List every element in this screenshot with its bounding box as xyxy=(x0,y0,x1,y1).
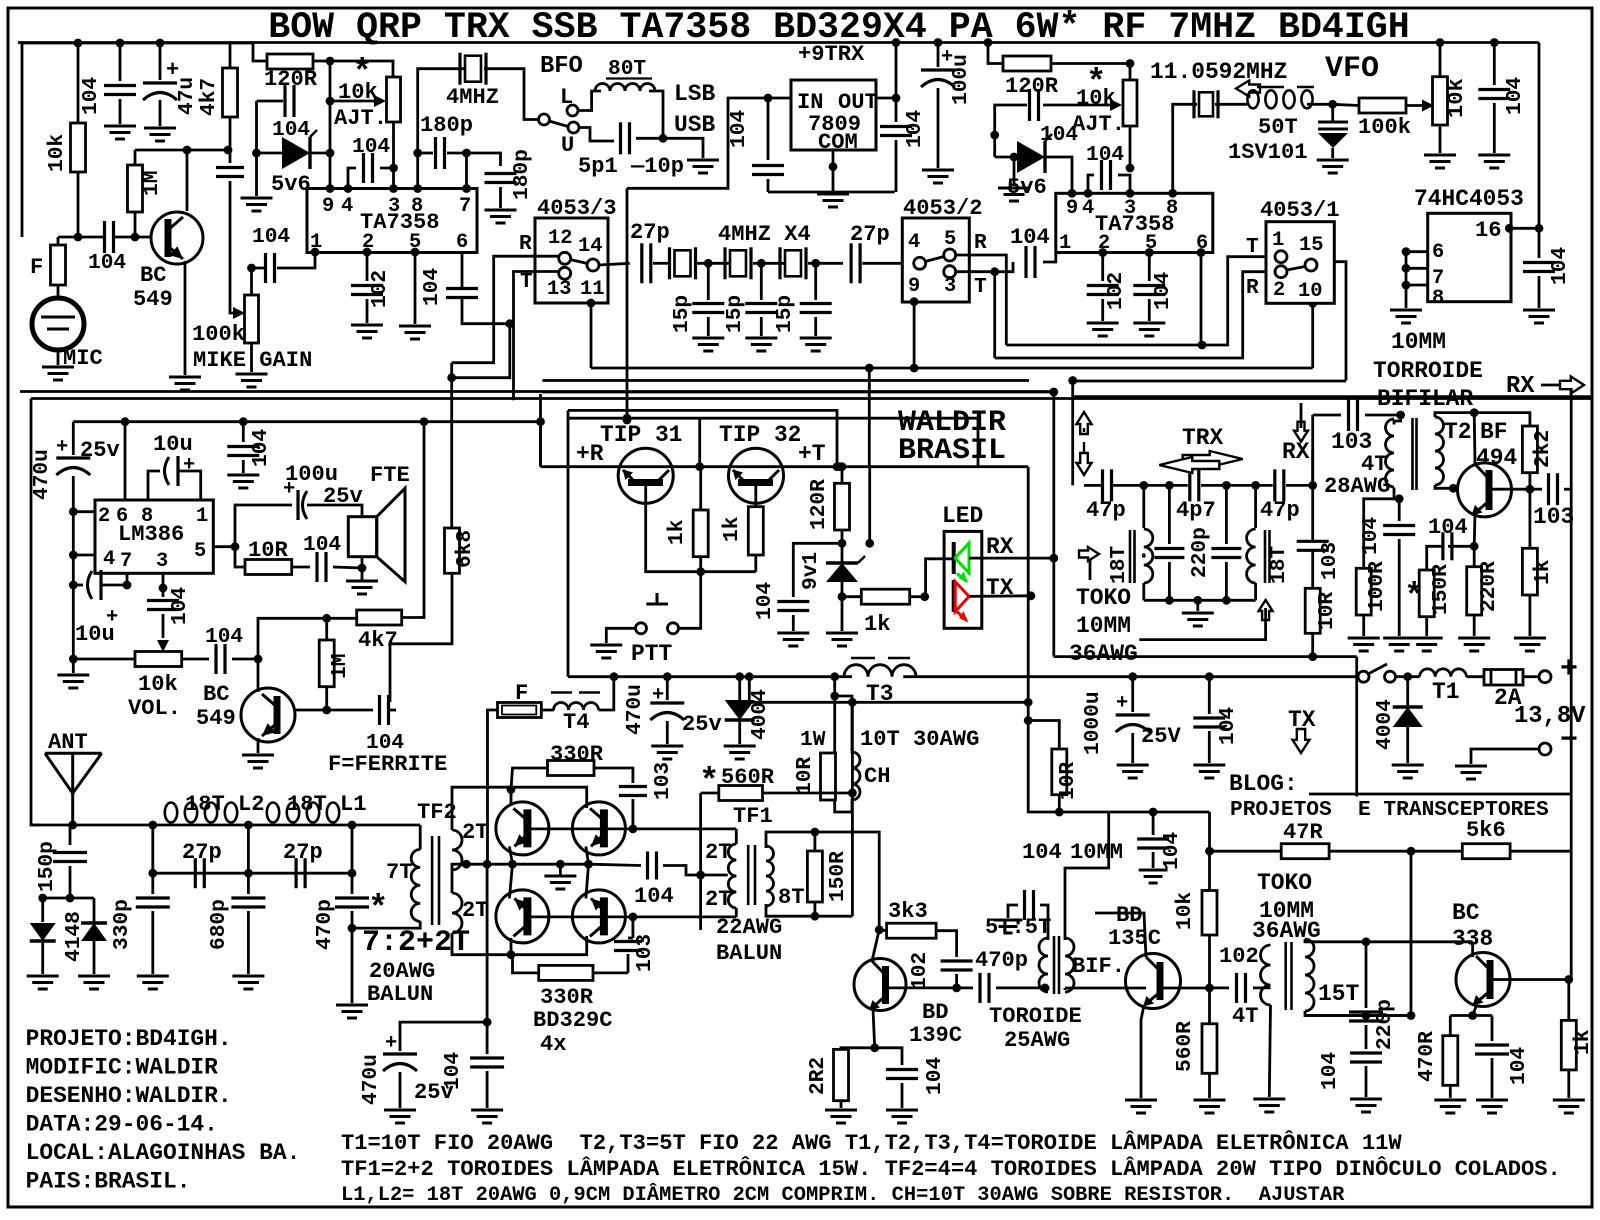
wire line B xyxy=(749,677,1028,703)
node base2 xyxy=(322,706,331,715)
annotation arrow RX down xyxy=(1294,422,1308,442)
ground 104 tank xyxy=(1350,1098,1382,1101)
zener 5v6 second xyxy=(1017,141,1045,173)
capacitor 104 bif xyxy=(1023,890,1026,920)
ground 180p2 xyxy=(485,209,517,212)
wire 220p b xyxy=(1225,485,1228,544)
svg-text:TF1: TF1 xyxy=(733,804,773,829)
wire node down xyxy=(329,61,332,188)
blade 4053/3 xyxy=(570,260,588,264)
wire zobel gnd xyxy=(333,567,362,581)
node +T lineB xyxy=(1024,698,1033,707)
ground 220R xyxy=(1458,637,1490,640)
wire q1 emit xyxy=(509,846,512,864)
node 1k1 bot xyxy=(696,567,705,576)
wire 10u to pin1 xyxy=(178,471,201,500)
wire tap decouple xyxy=(486,864,489,1022)
ground 15p3 xyxy=(800,337,832,340)
svg-text:TIP 32: TIP 32 xyxy=(719,422,801,448)
wire spk gnd lead xyxy=(361,557,364,568)
wire bc2 coll up xyxy=(257,659,260,692)
annotation arrow toko xyxy=(1259,600,1273,620)
node rail 120R2 xyxy=(984,38,993,47)
svg-text:9: 9 xyxy=(322,195,334,218)
svg-text:3k3: 3k3 xyxy=(888,899,928,924)
svg-text:6: 6 xyxy=(456,231,468,254)
wire tip32 base xyxy=(754,485,757,507)
wire 2k2 bot xyxy=(1529,473,1532,490)
svg-text:TOKO: TOKO xyxy=(1257,870,1312,896)
svg-text:100k: 100k xyxy=(192,322,245,347)
wire rx ann stub xyxy=(1300,403,1303,428)
capacitor 220p a xyxy=(1154,547,1184,550)
bus R cross xyxy=(1006,257,1274,345)
ferrite bead inner xyxy=(502,706,536,715)
wire up to 618 xyxy=(258,618,327,659)
wire 15p-2 gnd xyxy=(760,317,763,336)
svg-text:104: 104 xyxy=(79,77,103,115)
wire 10R branch xyxy=(235,547,245,567)
svg-text:LOCAL:ALAGOINHAS BA.: LOCAL:ALAGOINHAS BA. xyxy=(26,1140,301,1166)
ground 47u xyxy=(144,127,176,130)
svg-text:4053/3: 4053/3 xyxy=(537,196,617,221)
wire 2R2 tie xyxy=(841,1048,875,1050)
wire 330p lead xyxy=(151,873,154,894)
svg-text:13: 13 xyxy=(547,278,571,301)
ground d1 xyxy=(27,975,59,978)
PTT contact b xyxy=(668,623,679,634)
wire 150p bot xyxy=(69,866,72,898)
svg-text:2T: 2T xyxy=(462,898,489,923)
node p16 rail xyxy=(1535,224,1544,233)
wire 2R2 gnd xyxy=(840,1101,843,1108)
wire 10u2 right xyxy=(101,584,127,587)
node rail j3 xyxy=(156,39,165,48)
svg-text:10R: 10R xyxy=(793,757,817,795)
wire cap2 left xyxy=(995,105,1027,157)
inductor 5T:5T secondary xyxy=(1065,938,1074,992)
node 104m j xyxy=(1205,672,1214,681)
wire pin7 stub xyxy=(1406,267,1428,270)
T3 core dashes xyxy=(851,657,875,660)
node tf2 ret xyxy=(348,924,357,933)
wire 14 out xyxy=(599,263,630,265)
wire 104m gnd xyxy=(1208,731,1211,763)
wire ch bot xyxy=(835,799,852,812)
wire 120R2 feed xyxy=(988,43,1003,64)
svg-text:104: 104 xyxy=(1022,840,1062,865)
svg-text:8T: 8T xyxy=(778,885,805,910)
svg-text:47u: 47u xyxy=(175,77,199,115)
ground 4004 xyxy=(724,745,756,748)
inductor T1 xyxy=(1420,669,1467,677)
svg-text:104: 104 xyxy=(420,268,444,306)
wire emitter down xyxy=(184,261,187,375)
wire rx ctl up / bpf box left edge xyxy=(1052,392,1055,657)
wire chain row xyxy=(1097,484,1101,487)
wire pin1 down xyxy=(277,252,315,268)
wire +T ctl down xyxy=(1028,467,1033,812)
contact 5 xyxy=(944,249,956,261)
node e2 xyxy=(584,860,593,869)
wire 470R tie xyxy=(1449,1016,1452,1036)
wire 15p-1 gnd xyxy=(707,317,710,336)
capacitor 104 mike-gain series xyxy=(216,166,244,169)
resistor 3k3 xyxy=(887,923,937,938)
wire collector row xyxy=(135,149,228,152)
wire p2 down xyxy=(1101,253,1104,282)
wire base row 2 xyxy=(296,709,373,712)
svg-text:3: 3 xyxy=(1124,197,1136,220)
capacitor 330p xyxy=(136,896,170,899)
node T2 pri top xyxy=(1396,411,1405,420)
wire 1M bottom xyxy=(134,212,137,237)
svg-text:LED: LED xyxy=(942,503,983,529)
wire bpf up lead xyxy=(1311,450,1314,485)
ground 4T xyxy=(1253,1098,1285,1101)
svg-text:220R: 220R xyxy=(1477,561,1501,612)
node t1b xyxy=(1165,481,1174,490)
wire top collectors xyxy=(510,787,587,808)
wire 10k bottom xyxy=(77,172,80,237)
wire 104em to 150R xyxy=(1427,546,1443,570)
svg-text:*: * xyxy=(1404,579,1424,617)
terminal 13.8V + xyxy=(1539,671,1551,683)
wire 330R1 left xyxy=(511,768,548,790)
wire lpf v2 xyxy=(247,825,250,873)
wire 104hc gnd xyxy=(1538,276,1541,308)
wire 4T top xyxy=(1394,415,1401,425)
node bf base node xyxy=(1526,485,1535,494)
svg-text:104: 104 xyxy=(903,110,927,148)
node tb1 xyxy=(1165,596,1174,605)
inductor TF2 secondary a xyxy=(452,830,462,870)
svg-text:560R: 560R xyxy=(1173,1021,1197,1072)
wire egnd stub xyxy=(559,864,562,876)
inductor TF1 primary 8T xyxy=(766,846,774,906)
wire 560r2 gnd xyxy=(1208,1073,1211,1098)
svg-text:25v: 25v xyxy=(80,438,120,463)
node usb join xyxy=(659,134,668,143)
node rail j2 xyxy=(116,39,125,48)
wire 15p-1 xyxy=(707,263,710,300)
node pin3 lm xyxy=(159,584,168,593)
svg-text:AJT.: AJT. xyxy=(1072,112,1125,137)
wire 4T bot drv xyxy=(1269,1005,1270,1097)
wire p2 gnd xyxy=(1101,299,1104,321)
inductor TF1 secondary a xyxy=(728,844,736,876)
wire 103 bot fb xyxy=(632,917,635,938)
ground 104 bypass xyxy=(104,125,136,128)
capacitor 104 74hc xyxy=(1523,261,1555,264)
node led in xyxy=(920,592,929,601)
wire 4k7 to node xyxy=(229,117,232,150)
wire bpf box right edge xyxy=(1355,657,1358,797)
resistor 120R xyxy=(267,54,313,69)
annotation arrow TRX left xyxy=(1159,457,1219,473)
wire wiper xyxy=(330,100,374,103)
wire 102 down xyxy=(955,974,958,988)
potentiometer 10k VFO xyxy=(1433,77,1448,125)
node coll node xyxy=(1470,408,1479,417)
wire 9v1 to 1k xyxy=(842,595,861,598)
wire coil to node xyxy=(1307,103,1333,106)
node lineB start xyxy=(745,672,754,681)
svg-text:1: 1 xyxy=(1272,229,1284,252)
annotation arrow bpf down xyxy=(1077,453,1092,475)
wire bd135 base left xyxy=(1065,987,1146,990)
wire +R drop xyxy=(539,394,542,467)
node 3k3 tie xyxy=(875,925,884,934)
bus T cross xyxy=(995,272,1275,358)
resistor 120R third xyxy=(835,483,850,530)
wire lpf row2 xyxy=(153,872,352,875)
svg-text:1W: 1W xyxy=(800,728,826,752)
node zener anode xyxy=(252,149,261,158)
resistor 4k7 second xyxy=(357,610,402,625)
wire chain 4 xyxy=(1286,484,1313,487)
svg-text:10k: 10k xyxy=(45,134,69,172)
svg-text:18T: 18T xyxy=(1107,546,1131,584)
capacitor 104 emitter xyxy=(1441,532,1444,560)
node 1k1 top xyxy=(695,462,704,471)
svg-text:VOL.: VOL. xyxy=(128,696,181,721)
wire cap to join xyxy=(636,137,663,140)
resistor 1k 338 xyxy=(1561,1020,1576,1070)
wire fuse to term xyxy=(1523,675,1539,678)
wire pin2 stub xyxy=(73,510,95,513)
wire cap to 6k8 xyxy=(390,709,396,712)
switch power b xyxy=(1385,671,1396,682)
wire TR frame xyxy=(698,418,701,467)
node decouple xyxy=(483,1018,492,1027)
svg-text:25v: 25v xyxy=(682,712,722,737)
node rail j1 xyxy=(74,39,83,48)
wire 103c to T2 xyxy=(1365,414,1401,417)
svg-text:100k: 100k xyxy=(1358,115,1411,140)
node p4 2 xyxy=(1084,189,1093,198)
node d1 xyxy=(38,894,47,903)
wire drv supply xyxy=(1033,811,1210,814)
svg-text:−: − xyxy=(1560,724,1578,758)
svg-text:TIP 31: TIP 31 xyxy=(600,422,682,448)
svg-text:2R2: 2R2 xyxy=(806,1057,830,1095)
svg-text:4T: 4T xyxy=(1232,1004,1259,1029)
svg-text:104: 104 xyxy=(352,135,390,159)
svg-text:50T: 50T xyxy=(1258,115,1298,140)
svg-text:1k: 1k xyxy=(1571,1029,1595,1055)
svg-text:T2: T2 xyxy=(1444,419,1471,445)
wire bif cap gnd xyxy=(1008,905,1018,918)
wire 10R to lineC xyxy=(1311,633,1314,656)
svg-text:4053/1: 4053/1 xyxy=(1260,198,1340,223)
inductor T3 xyxy=(844,665,916,677)
wire 120R to pot xyxy=(313,61,393,77)
svg-text:8: 8 xyxy=(1166,197,1178,220)
ground 4004b xyxy=(1392,764,1424,767)
svg-text:BLOG:: BLOG: xyxy=(1229,771,1298,797)
wire 3k3 left xyxy=(879,928,886,932)
wire q2 emit xyxy=(586,846,589,864)
wire audio 6k8 feed xyxy=(450,363,453,528)
wire cap104 gnd lead xyxy=(119,99,122,124)
wire bf base xyxy=(1489,488,1530,491)
IC 7809 regulator xyxy=(791,80,876,150)
svg-text:104: 104 xyxy=(441,1052,465,1090)
wire tx feed down xyxy=(851,702,854,916)
node hc7 xyxy=(1402,264,1411,273)
node hc8 xyxy=(1402,281,1411,290)
svg-text:LSB: LSB xyxy=(674,81,715,107)
wire 104m lead xyxy=(1208,677,1211,714)
wire cap to pin3 xyxy=(380,168,394,189)
wire cap 104 series xyxy=(229,150,232,163)
svg-text:18T L2: 18T L2 xyxy=(185,792,265,817)
wire p8-2 up xyxy=(1173,104,1197,193)
ground vfo pot xyxy=(1424,154,1456,157)
potentiometer 10k VOL xyxy=(135,652,182,667)
node pin9 xyxy=(326,184,335,193)
svg-text:PROJETO:BD4IGH.: PROJETO:BD4IGH. xyxy=(26,1026,232,1052)
node cap2 j xyxy=(990,131,999,140)
capacitor 180p xyxy=(434,137,437,169)
svg-text:F: F xyxy=(30,255,43,280)
svg-text:104: 104 xyxy=(1086,143,1124,167)
transistor BD329 q1 xyxy=(496,802,549,855)
ground 100u xyxy=(922,169,954,172)
svg-text:+T: +T xyxy=(798,441,826,467)
wire 330p gnd xyxy=(151,911,154,974)
node varactor xyxy=(1328,100,1337,109)
svg-text:TRX: TRX xyxy=(1182,425,1223,451)
svg-text:T4: T4 xyxy=(563,710,590,735)
wire crystal to switch xyxy=(484,69,538,120)
node pwr in xyxy=(1403,672,1412,681)
wire pin6 stub xyxy=(1406,250,1428,253)
svg-text:150p: 150p xyxy=(35,841,59,892)
wire bd139 emit xyxy=(873,1009,875,1048)
svg-text:TORROIDE: TORROIDE xyxy=(1373,358,1483,384)
svg-text:4004: 4004 xyxy=(1373,699,1397,750)
wire T2 sec bot xyxy=(1435,485,1453,488)
node p6 2 xyxy=(1197,248,1206,257)
node bpf tap xyxy=(1068,376,1077,385)
wire F2 to T4 xyxy=(541,709,554,712)
wire pin2 down xyxy=(366,252,369,281)
svg-text:104: 104 xyxy=(168,587,192,625)
wire tank bot r xyxy=(1366,1014,1411,1017)
wire tank to 47R node xyxy=(1410,851,1413,1015)
wire 220p a xyxy=(1168,485,1171,544)
capacitor 104 9v1 xyxy=(777,600,809,603)
node base bf xyxy=(1449,484,1458,493)
ground 104 vfo xyxy=(1478,154,1510,157)
node bd139 base node xyxy=(952,984,961,993)
wire anode gnd xyxy=(255,153,258,196)
wire pin4-2 jog xyxy=(1088,175,1094,193)
wire 103 top fb b xyxy=(632,799,635,829)
svg-text:104: 104 xyxy=(1548,247,1572,285)
svg-text:27p: 27p xyxy=(630,220,670,245)
wire 1k to led xyxy=(910,595,925,598)
zener 9v1 xyxy=(841,543,844,563)
resistor 120R second xyxy=(1003,56,1051,71)
switch L contact xyxy=(567,105,578,116)
svg-text:47p: 47p xyxy=(1260,498,1300,523)
potentiometer 100k MIKE GAIN xyxy=(245,295,259,343)
svg-text:2T: 2T xyxy=(705,887,732,912)
resistor 5k6 xyxy=(1462,844,1510,859)
capacitor 27p a xyxy=(640,243,643,283)
diode 4004 rail xyxy=(725,700,755,720)
node tank bot b xyxy=(1407,1011,1416,1020)
wire section divider xyxy=(31,397,1592,400)
node pot2 top xyxy=(1126,59,1135,68)
core 18T a xyxy=(1129,530,1132,583)
annotation dash bpf xyxy=(1083,428,1085,432)
svg-text:4004: 4004 xyxy=(748,689,772,740)
svg-text:BRASIL: BRASIL xyxy=(898,434,1006,468)
capacitor 150p xyxy=(53,851,87,854)
wire tip31 base xyxy=(646,485,756,572)
wire T3 coil section xyxy=(903,675,1357,678)
svg-text:1M: 1M xyxy=(328,654,352,679)
inductor L2 18T xyxy=(165,803,177,823)
transistor TIP31 xyxy=(618,448,673,503)
resistor 470R xyxy=(1443,1036,1458,1086)
svg-text:6k8: 6k8 xyxy=(453,530,477,568)
wire toko2 lead xyxy=(1089,560,1092,580)
svg-text:MIKE GAIN: MIKE GAIN xyxy=(193,348,312,373)
resistor 330R bottom xyxy=(539,965,593,980)
node vol gnd xyxy=(69,655,78,664)
svg-text:104: 104 xyxy=(634,884,674,909)
node p7 tie xyxy=(69,581,78,590)
transistor BC338 xyxy=(1456,953,1510,1007)
wire 1M2 bottom xyxy=(325,687,328,710)
wire 10k drv xyxy=(1208,851,1211,890)
svg-text:AJT.: AJT. xyxy=(334,106,387,131)
svg-text:36AWG: 36AWG xyxy=(1069,641,1138,667)
wire T1 to fuse xyxy=(1466,675,1484,678)
capacitor 103 out xyxy=(1547,473,1550,505)
LED indicator box xyxy=(944,531,982,628)
wire tf2 sec bot xyxy=(452,933,510,955)
svg-text:FTE: FTE xyxy=(370,463,410,488)
node 120R out xyxy=(326,57,335,66)
svg-text:7:2+2T: 7:2+2T xyxy=(362,926,470,960)
node d2 xyxy=(66,894,75,903)
inductor TF1 secondary b xyxy=(728,876,736,908)
svg-text:10k: 10k xyxy=(1076,86,1116,111)
svg-text:F=FERRITE: F=FERRITE xyxy=(328,752,447,777)
node bc xyxy=(507,950,516,959)
svg-text:25AWG: 25AWG xyxy=(1004,1028,1070,1053)
svg-text:330R: 330R xyxy=(550,742,604,767)
svg-text:15: 15 xyxy=(1299,234,1323,257)
contact 14 common xyxy=(587,259,599,271)
resistor 100R xyxy=(1356,568,1371,615)
wire emitter line xyxy=(541,465,870,468)
wire 100R tie xyxy=(1364,499,1400,569)
node spk gnd xyxy=(358,564,367,573)
node pin7 j xyxy=(123,581,132,590)
wire 104 bc338 xyxy=(1491,1016,1494,1042)
wire bot bases xyxy=(527,916,736,919)
capacitor 27p lpf b xyxy=(295,858,298,888)
wire 5k6 right xyxy=(1510,850,1571,853)
wire collector up xyxy=(186,150,189,211)
